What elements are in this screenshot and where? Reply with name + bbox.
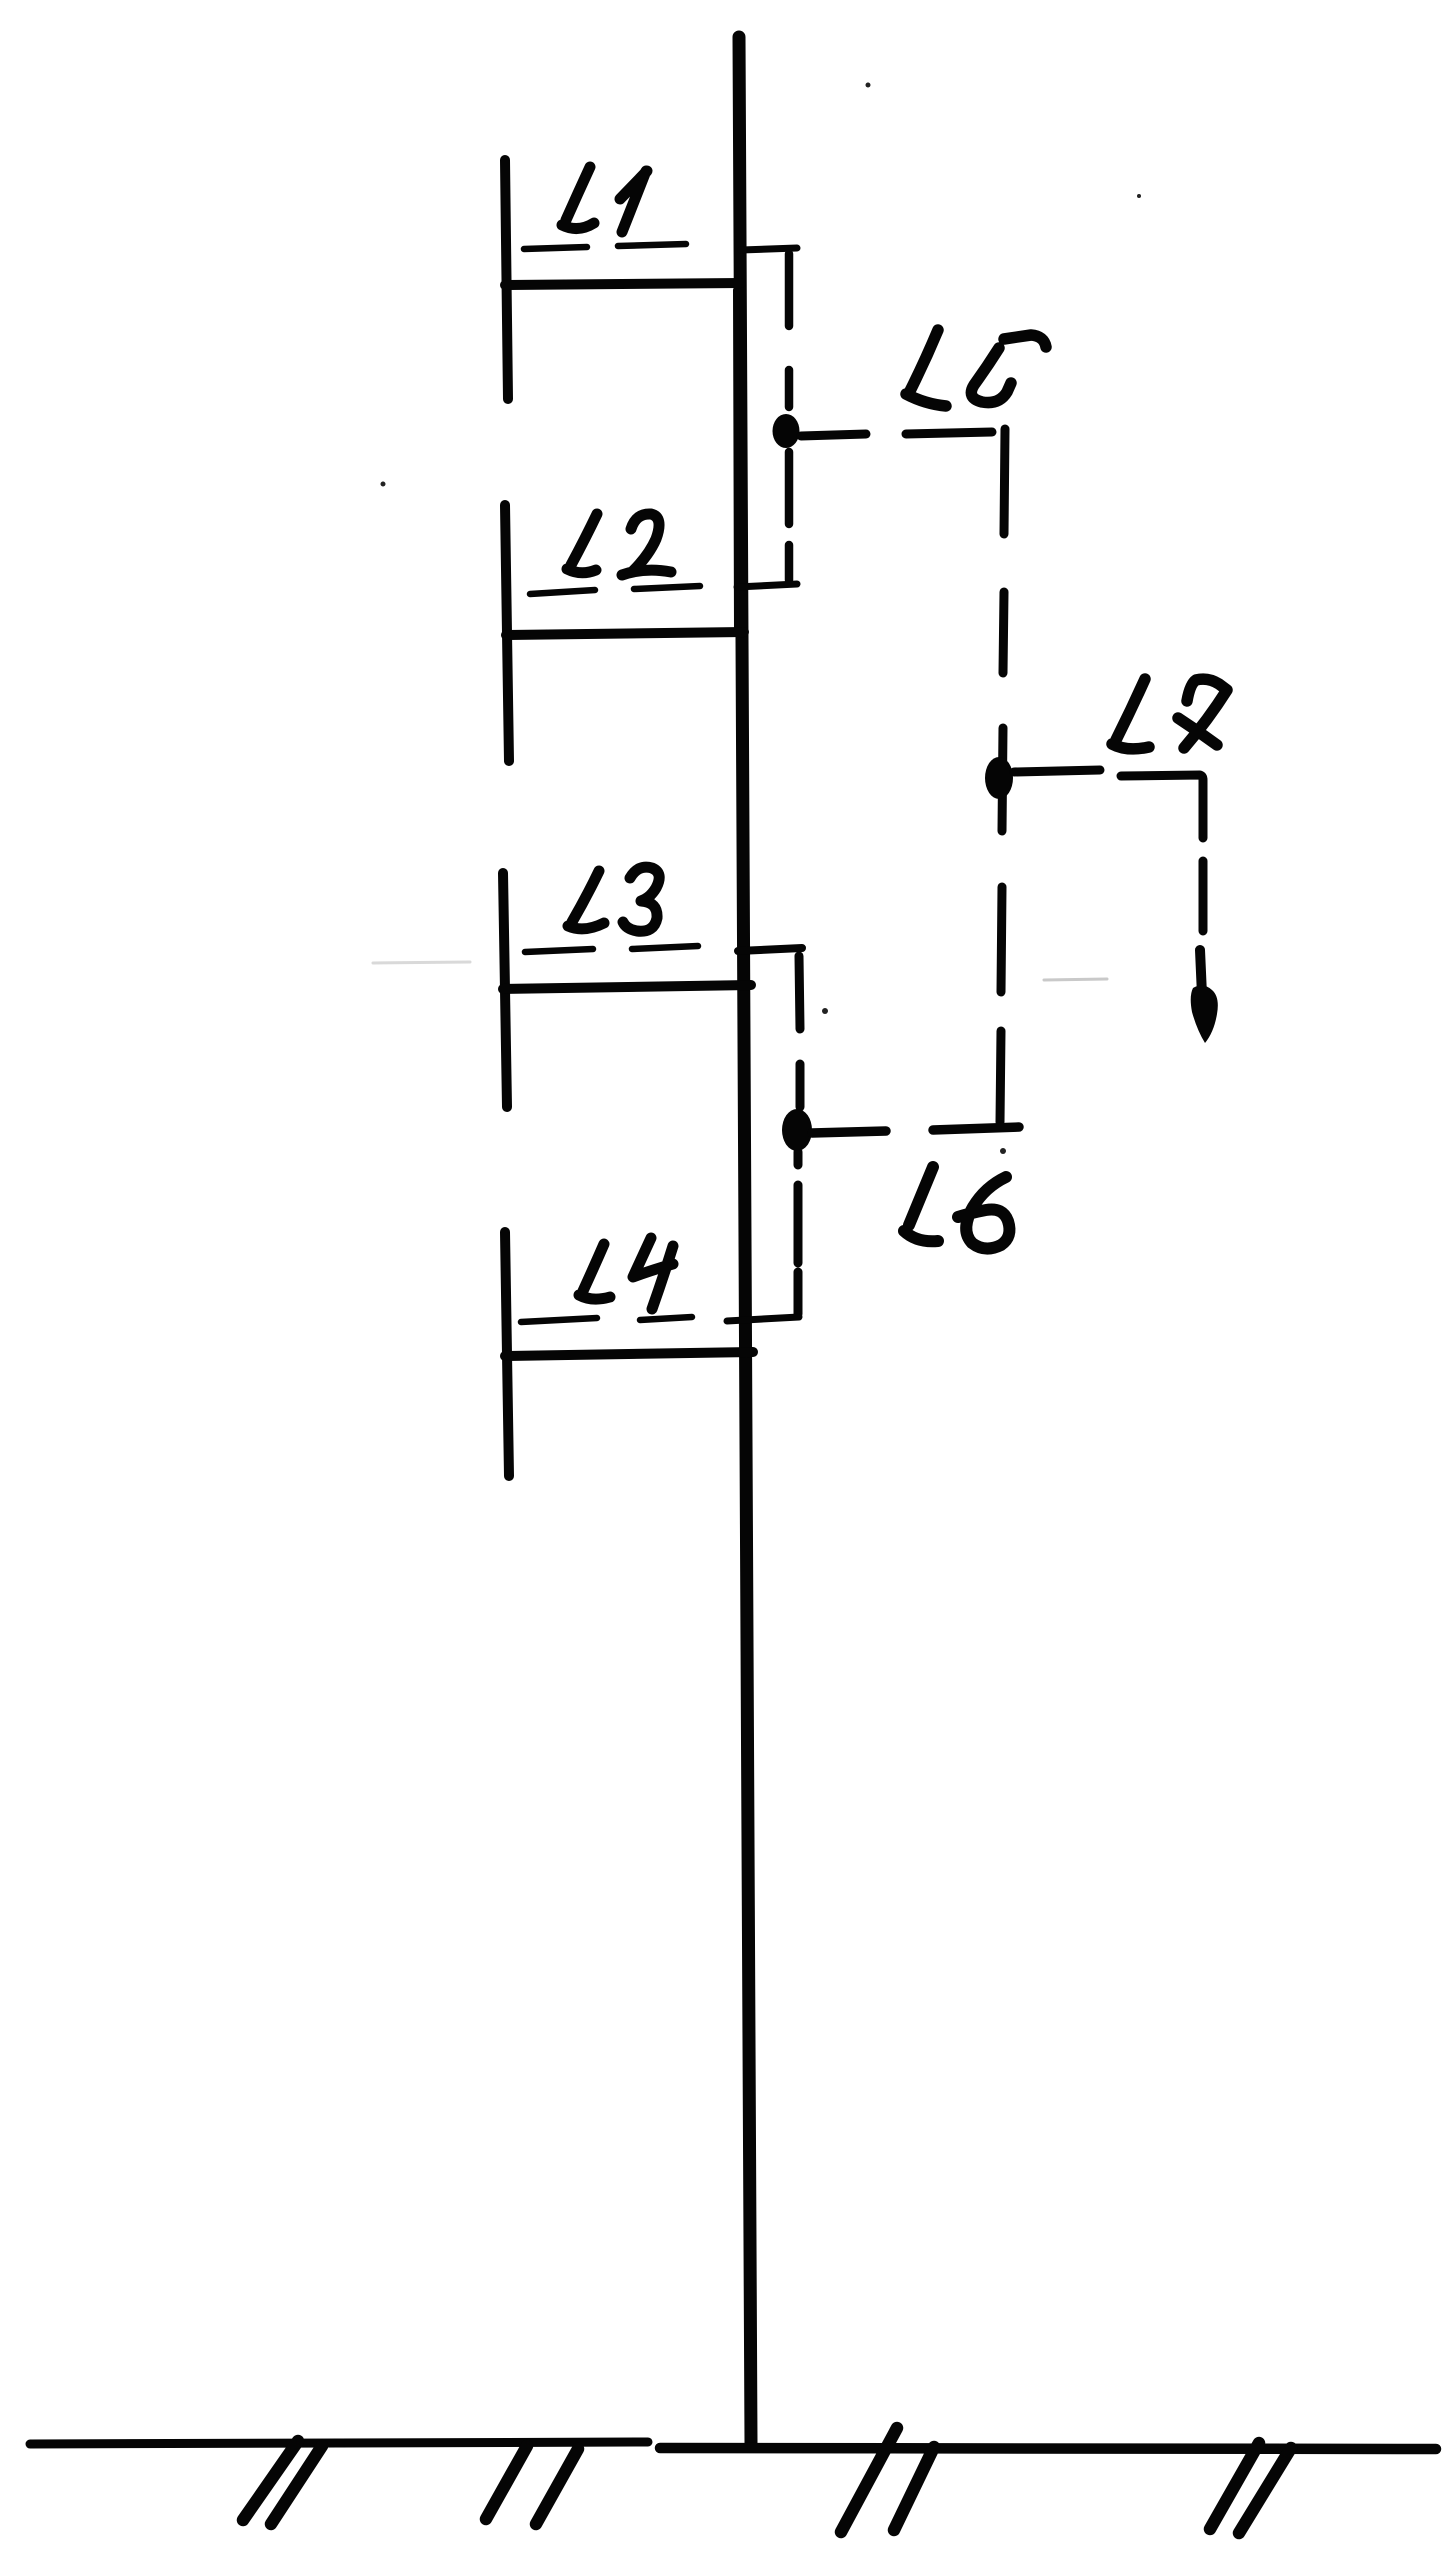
wire: left rail segment 3 xyxy=(503,873,507,1107)
faint scratch left of rung 3 xyxy=(373,962,470,963)
faint scratch near L7 arrow xyxy=(1044,979,1107,980)
wire: main vertical mast line xyxy=(739,37,751,2443)
node dot on L6 bracket xyxy=(782,1109,812,1151)
dashed underline of label L2 xyxy=(530,586,700,594)
node dot on L5 bracket xyxy=(773,414,800,448)
wire: rung of element L3 xyxy=(503,985,751,989)
label L4 xyxy=(579,1238,673,1309)
arrow at end of L7 line xyxy=(1200,950,1202,995)
dimension bracket for L5 (top tick) xyxy=(741,248,797,250)
paper speck 5 xyxy=(1000,1148,1006,1154)
wire: left rail segment 2 xyxy=(505,505,509,761)
label L3 xyxy=(568,867,659,931)
ground hatch pair 4 xyxy=(1210,2443,1291,2533)
node dot on connector (L7 take-off) xyxy=(985,757,1013,799)
dashed dimension line L6 xyxy=(812,1127,1019,1133)
dashed underline of label L4 xyxy=(521,1317,692,1322)
paper speck 1 xyxy=(866,83,871,88)
dimension bracket for L6 (dashed vertical) xyxy=(798,956,800,1314)
dimension bracket for L5 (dashed vertical) xyxy=(785,254,794,580)
dashed dimension line L7 xyxy=(1014,770,1203,931)
ground hatch pair 2 xyxy=(486,2446,578,2524)
wire: rung of element L4 xyxy=(505,1352,753,1356)
dimension bracket for L6 (bottom tick) xyxy=(727,1317,799,1321)
wire: left rail segment 1 xyxy=(505,160,508,399)
dashed underline of label L1 xyxy=(524,244,686,249)
ground hatch pair 1 xyxy=(243,2441,322,2524)
dashed underline of label L3 xyxy=(525,946,698,952)
dashed dimension line L5 xyxy=(801,432,992,436)
paper speck 4 xyxy=(822,1008,828,1014)
wire: rung of element L1 xyxy=(505,283,741,285)
label L2 xyxy=(567,514,671,575)
wire: right vertical dashed connector xyxy=(1000,429,1005,1122)
dimension bracket for L6 (top tick) xyxy=(738,948,802,951)
label L1 xyxy=(562,167,647,232)
wire: ground line left segment xyxy=(30,2442,648,2444)
wire: rung of element L2 xyxy=(506,632,744,635)
paper speck 3 xyxy=(381,482,386,487)
label L6 xyxy=(904,1167,1009,1249)
dimension bracket for L5 (bottom tick) xyxy=(737,584,797,587)
label L7 xyxy=(1112,679,1227,749)
label L5 xyxy=(906,330,1046,406)
paper speck 2 xyxy=(1137,194,1141,198)
wire: left rail segment 4 xyxy=(505,1232,509,1476)
wire: ground line right segment xyxy=(660,2448,1436,2449)
ground hatch pair 3 xyxy=(841,2428,934,2532)
